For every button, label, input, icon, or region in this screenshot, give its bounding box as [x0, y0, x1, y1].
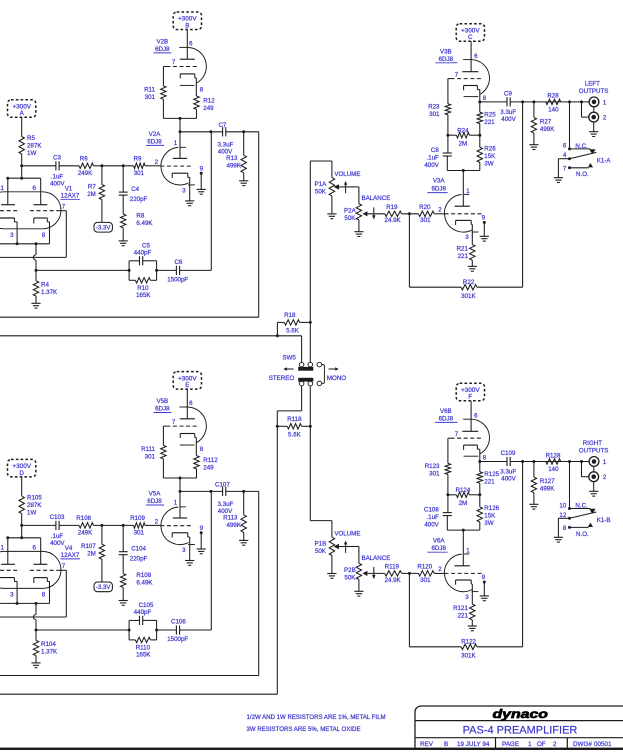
svg-text:R24: R24 [457, 127, 469, 134]
bias label -3.3V [94, 582, 112, 592]
svg-text:3W RESISTORS ARE 5%, METAL OXI: 3W RESISTORS ARE 5%, METAL OXIDE [247, 726, 361, 733]
svg-text:249K: 249K [78, 170, 93, 177]
svg-text:P2A: P2A [344, 207, 357, 214]
svg-text:499K: 499K [540, 126, 555, 133]
svg-text:V6B: V6B [440, 408, 452, 415]
label MONO with arrow [327, 367, 346, 382]
power +300V A [8, 100, 36, 137]
resistor R25 221 [477, 100, 496, 135]
ground under jack 2 [589, 122, 598, 137]
svg-text:C106: C106 [171, 619, 186, 626]
note resistor tolerances [247, 714, 386, 733]
relay K1-B N.C. contact pin 10 [559, 502, 595, 514]
svg-text:301: 301 [145, 94, 156, 101]
tube V3A grid pin 2 [438, 207, 482, 214]
capacitor C108 .1uF 400V [424, 495, 452, 530]
svg-text:301: 301 [134, 530, 145, 537]
resistor R22 301K feedback [409, 102, 522, 300]
svg-text:1500pF: 1500pF [167, 636, 188, 643]
svg-text:301: 301 [420, 577, 431, 584]
tube V5A plate pin 1 [173, 491, 188, 518]
label LEFT OUTPUTS [579, 80, 609, 94]
tube V5B grid pin 7 [163, 419, 197, 446]
svg-text:1: 1 [466, 188, 470, 195]
resistor R104 1.37K [33, 630, 58, 663]
svg-text:R109: R109 [130, 515, 145, 522]
svg-text:287K: 287K [27, 142, 42, 149]
svg-text:C8: C8 [431, 147, 439, 154]
svg-text:dynaco: dynaco [493, 707, 549, 721]
tube V3B envelope [463, 60, 489, 97]
resistor R19 24.9K [385, 204, 402, 224]
svg-text:2: 2 [553, 741, 557, 748]
tube V2B plate pin 6 [180, 40, 195, 59]
tube V5A grid pin 2 [155, 519, 193, 526]
svg-text:R20: R20 [419, 204, 431, 211]
svg-text:24.9K: 24.9K [385, 217, 402, 224]
sheet bottom border [0, 748, 623, 750]
svg-text:BALANCE: BALANCE [361, 195, 390, 202]
svg-text:DWG#: DWG# [573, 741, 592, 748]
tube V3B cathode pin 8 [464, 86, 487, 102]
svg-text:1.37K: 1.37K [41, 649, 58, 656]
relay K1-A N.C. contact pin 6 [563, 143, 596, 155]
svg-text:E: E [185, 382, 189, 389]
svg-text:00501: 00501 [594, 741, 612, 748]
svg-text:7: 7 [455, 431, 459, 438]
svg-text:R12: R12 [203, 97, 215, 104]
svg-text:V1: V1 [65, 185, 73, 192]
svg-text:7: 7 [62, 204, 66, 211]
tube V6B 6DJ8 label [435, 408, 457, 423]
ground at relay K1-B armature [554, 537, 563, 542]
svg-text:C4: C4 [131, 186, 139, 193]
svg-text:140: 140 [548, 106, 559, 113]
svg-text:3.3uF: 3.3uF [217, 141, 233, 148]
svg-text:B: B [185, 22, 189, 29]
resistor R119 24.9K [385, 564, 402, 584]
svg-text:R128: R128 [546, 452, 561, 459]
switch SW5 pole 2 [298, 378, 313, 386]
svg-text:6DJ8: 6DJ8 [155, 406, 170, 413]
node grid junction [402, 212, 419, 215]
svg-text:B: B [444, 741, 448, 748]
output jack 2 [582, 462, 607, 482]
svg-text:2: 2 [438, 207, 442, 214]
ground under P1A [327, 214, 336, 219]
svg-text:6: 6 [32, 544, 36, 551]
tube V4 grid pin 7 wire [65, 570, 67, 617]
svg-text:OUTPUTS: OUTPUTS [579, 447, 609, 454]
ground at relay K1-A armature [554, 178, 563, 183]
wire jack 1 to jack 2 shell [593, 466, 595, 472]
svg-text:165K: 165K [136, 652, 151, 659]
svg-text:1/2W AND 1W RESISTORS ARE 1%,: 1/2W AND 1W RESISTORS ARE 1%, METAL FILM [247, 714, 386, 721]
tube V2A plate pin 1 [173, 132, 188, 159]
svg-text:C104: C104 [131, 546, 146, 553]
tube V3A 6DJ8 label [427, 178, 447, 193]
svg-text:V5B: V5B [156, 398, 168, 405]
tube V5B 6DJ8 label [154, 398, 172, 413]
power +300V B [173, 12, 201, 59]
svg-text:400V: 400V [424, 521, 439, 528]
svg-text:PAGE: PAGE [502, 741, 519, 748]
wire output line [480, 460, 589, 463]
potentiometer P1B 50K VOLUME [315, 531, 361, 574]
tube V5B envelope [179, 407, 206, 445]
resistor R118 5.6K [276, 416, 312, 438]
resistor R108 6.49K [121, 572, 154, 601]
svg-text:N.O.: N.O. [576, 171, 589, 178]
ground under P1B [327, 574, 336, 579]
output jack 1 [589, 457, 607, 467]
resistor R4 1.37K [33, 270, 58, 303]
tube V1 plate feed wire [6, 166, 40, 180]
svg-text:C3: C3 [53, 154, 61, 161]
ground under R27 [529, 145, 538, 150]
svg-text:R11: R11 [144, 87, 155, 94]
svg-text:R4: R4 [41, 281, 49, 288]
svg-text:P1A: P1A [315, 181, 328, 188]
ground under R113 [239, 540, 248, 545]
label relay K1-B [597, 517, 611, 524]
label SW5 [282, 355, 296, 362]
svg-text:12AX7: 12AX7 [61, 552, 80, 559]
svg-text:1.37K: 1.37K [41, 289, 58, 296]
svg-text:1500pF: 1500pF [167, 276, 188, 283]
svg-text:3W: 3W [484, 520, 493, 527]
svg-text:301K: 301K [461, 653, 476, 660]
wire right channel selector input line [0, 426, 277, 694]
svg-text:R9: R9 [134, 155, 142, 162]
resistor R7 2M [87, 166, 104, 223]
capacitor C106 1500pF [157, 619, 212, 643]
capacitor C104 220pF [119, 525, 148, 573]
svg-text:6: 6 [189, 40, 193, 47]
svg-text:V2B: V2B [156, 39, 168, 46]
svg-text:2M: 2M [459, 500, 468, 507]
resistor R107 2M [81, 525, 105, 582]
svg-text:9: 9 [482, 574, 486, 581]
svg-text:2M: 2M [87, 191, 96, 198]
resistor R106 249K [76, 515, 93, 537]
svg-text:6DJ8: 6DJ8 [431, 545, 446, 552]
tube V2B envelope [179, 47, 206, 85]
tube V5A pin 9 shield to ground [197, 525, 206, 554]
svg-text:6DJ8: 6DJ8 [439, 416, 454, 423]
svg-text:221: 221 [458, 253, 469, 260]
svg-text:.1uF: .1uF [426, 514, 439, 521]
wire SW5 right pole to P1A feed [309, 161, 311, 362]
svg-text:V5A: V5A [149, 491, 162, 498]
svg-text:C107: C107 [215, 482, 230, 489]
relay K1-A armature pin 4 [558, 152, 596, 178]
svg-text:R26: R26 [484, 146, 496, 153]
tube V2B grid pin 7 [163, 59, 197, 86]
svg-text:50K: 50K [344, 575, 356, 582]
svg-text:R23: R23 [428, 103, 440, 110]
svg-text:R27: R27 [540, 118, 552, 125]
capacitor C3 .1uF 400V [50, 154, 65, 187]
svg-text:C109: C109 [501, 450, 516, 457]
svg-text:3.3uF: 3.3uF [217, 501, 233, 508]
svg-text:R120: R120 [417, 564, 432, 571]
svg-text:6.49K: 6.49K [136, 220, 153, 227]
svg-text:50K: 50K [344, 215, 356, 222]
svg-text:1: 1 [174, 500, 178, 507]
svg-text:C103: C103 [50, 514, 65, 521]
svg-text:3: 3 [10, 591, 14, 598]
wire V6A plate junction [447, 529, 480, 566]
resistor R26 15K 3W [477, 135, 496, 170]
resistor R113 499K [223, 491, 246, 540]
svg-text:6DJ8: 6DJ8 [147, 498, 162, 505]
svg-text:301K: 301K [461, 293, 476, 300]
label STEREO with arrow [269, 367, 295, 382]
ground under P2B [354, 591, 363, 596]
wire feed to P1A [310, 161, 332, 178]
svg-text:6.49K: 6.49K [136, 580, 153, 587]
svg-text:C9: C9 [504, 91, 512, 98]
tube V5B cathode pin 8 [180, 434, 204, 456]
svg-text:5.6K: 5.6K [286, 327, 300, 334]
svg-text:400V: 400V [50, 180, 65, 187]
resistor R24 2M [446, 127, 481, 147]
svg-text:6: 6 [563, 143, 567, 150]
capacitor C7 3.3uF 400V [217, 122, 233, 156]
svg-text:1: 1 [466, 547, 470, 554]
capacitor C4 220pF [119, 166, 148, 214]
capacitor C103 .1uF 400V [50, 514, 66, 547]
svg-text:R118: R118 [287, 416, 302, 423]
svg-text:1: 1 [0, 185, 4, 192]
svg-text:F: F [468, 394, 472, 401]
svg-text:BALANCE: BALANCE [361, 555, 390, 562]
capacitor C9 3.3uF 400V [500, 91, 516, 123]
wire C6 up to stage-2 output [210, 491, 212, 630]
svg-text:R13: R13 [226, 155, 238, 162]
svg-text:D: D [19, 470, 24, 477]
svg-text:R123: R123 [425, 463, 440, 470]
capacitor C107 3.3uF 400V [215, 482, 234, 516]
svg-text:2: 2 [438, 566, 442, 573]
switch SW5 pole 1 [298, 362, 313, 370]
svg-text:1: 1 [174, 140, 178, 147]
tube V2A envelope [161, 147, 195, 185]
tube V5A envelope [161, 507, 195, 545]
svg-text:8: 8 [42, 232, 46, 239]
svg-text:3: 3 [465, 594, 469, 601]
wire main input line [22, 524, 161, 526]
svg-text:C108: C108 [424, 506, 439, 513]
svg-text:301: 301 [429, 111, 440, 118]
svg-text:R7: R7 [88, 183, 96, 190]
wire to C5/R10 network [36, 629, 129, 631]
power +300V E [173, 372, 201, 419]
power +300V D [8, 459, 36, 496]
capacitor C8 .1uF 400V [424, 135, 451, 170]
svg-text:301: 301 [134, 170, 145, 177]
svg-text:3W: 3W [484, 161, 493, 168]
svg-text:3: 3 [10, 232, 14, 239]
resistor R5 287K 1W [19, 135, 42, 166]
tube V1 12AX7 envelope [0, 185, 80, 228]
wire to C5/R10 network [36, 269, 129, 271]
wire feed to P1B [310, 521, 332, 538]
svg-text:12AX7: 12AX7 [61, 193, 80, 200]
svg-text:SW5: SW5 [282, 355, 296, 362]
svg-text:6DJ8: 6DJ8 [147, 139, 162, 146]
svg-text:1W: 1W [27, 150, 36, 157]
resistor R13 499K [226, 132, 246, 181]
tube V6B envelope [463, 419, 489, 456]
svg-text:1: 1 [603, 459, 607, 466]
wire P1B wiper to P2B [346, 547, 359, 564]
svg-text:6DJ8: 6DJ8 [439, 56, 454, 63]
tube V1 plates pins 1 and 6 [0, 178, 47, 205]
svg-text:-3.3V: -3.3V [96, 226, 110, 232]
resistor R121 221 [453, 604, 475, 626]
wire SW5 lower-left jog [277, 386, 301, 427]
switch SW5 actuator bracket [317, 362, 324, 385]
potentiometer P1A 50K VOLUME [315, 171, 361, 214]
resistor R18 5.6K [277, 312, 311, 336]
label RIGHT OUTPUTS [579, 440, 609, 454]
svg-text:10: 10 [559, 502, 566, 509]
svg-text:249: 249 [203, 105, 214, 112]
svg-text:499K: 499K [227, 522, 242, 529]
tube V5A cathode pin 3 [172, 533, 190, 561]
svg-text:P2B: P2B [344, 567, 356, 574]
svg-text:2: 2 [603, 115, 607, 122]
svg-text:301: 301 [429, 470, 440, 477]
wire right channel output bus (C107 node to front panel) [0, 491, 259, 675]
capacitor C5 440pF / resistor R10 165K parallel [128, 243, 159, 300]
label relay K1-A [597, 157, 612, 164]
ground under R121 [468, 626, 477, 631]
wire main input line [22, 165, 161, 167]
svg-text:6: 6 [189, 400, 193, 407]
ground under R8 [119, 241, 128, 246]
resistor R21 221 [457, 245, 475, 267]
resistor R23 301 [428, 103, 450, 135]
svg-text:R127: R127 [540, 478, 555, 485]
wire cathode junction [0, 242, 50, 245]
resistor R127 499K [531, 462, 555, 505]
wire cathode junction [0, 602, 50, 605]
svg-text:V6A: V6A [433, 537, 446, 544]
svg-text:C: C [468, 34, 473, 41]
svg-text:400V: 400V [424, 162, 439, 169]
svg-text:220pF: 220pF [130, 196, 148, 203]
tube V6B grid pin 7 [448, 431, 481, 463]
svg-text:499K: 499K [540, 486, 555, 493]
tube V6A cathode pin 3 [456, 580, 473, 604]
resistor R123 301 [425, 463, 451, 495]
svg-text:2: 2 [603, 474, 607, 481]
svg-text:50K: 50K [315, 189, 327, 196]
wire left channel selector input line [0, 334, 302, 362]
tube V5B plate pin 6 [180, 400, 195, 419]
tube V3B plate pin 6 [462, 53, 478, 72]
node junctions on input line [20, 164, 125, 167]
resistor R12 249 [194, 96, 215, 118]
svg-text:8: 8 [200, 86, 204, 93]
svg-text:C6: C6 [174, 259, 182, 266]
title PAS-4 PREAMPLIFIER [463, 725, 578, 737]
svg-text:7: 7 [172, 419, 176, 426]
resistor R109 301 [130, 515, 145, 537]
capacitor C6 1500pF [157, 259, 212, 283]
svg-text:PAS-4 PREAMPLIFIER: PAS-4 PREAMPLIFIER [463, 725, 578, 737]
svg-text:221: 221 [484, 479, 495, 486]
tube V4 12AX7 envelope [0, 545, 80, 588]
tube V2B 6DJ8 label [154, 39, 172, 54]
potentiometer P2A 50K BALANCE [344, 195, 390, 232]
svg-text:OUTPUTS: OUTPUTS [579, 88, 609, 95]
svg-text:R111: R111 [141, 446, 155, 453]
resistor R124 2M [446, 487, 481, 507]
ground under P2A [354, 232, 363, 237]
svg-text:R21: R21 [457, 245, 469, 252]
svg-text:249K: 249K [78, 530, 93, 537]
svg-text:440pF: 440pF [134, 609, 152, 616]
tube V3A cathode pin 3 [456, 220, 473, 244]
svg-text:2: 2 [155, 159, 159, 166]
wire C6 up to stage-2 output [210, 132, 212, 271]
svg-text:R25: R25 [484, 111, 496, 118]
resistor R120 301 [417, 564, 444, 584]
resistor R28 140 [546, 93, 561, 114]
ground under R127 [529, 504, 538, 509]
svg-text:287K: 287K [27, 502, 42, 509]
svg-text:9: 9 [482, 215, 486, 222]
svg-text:400V: 400V [50, 540, 65, 547]
svg-text:15K: 15K [484, 153, 496, 160]
svg-text:.1uF: .1uF [426, 154, 439, 161]
wire cathode to output node (hop over feedback line) [33, 244, 37, 272]
svg-text:6: 6 [32, 185, 36, 192]
wire stage output line [179, 490, 259, 493]
svg-text:8: 8 [42, 591, 46, 598]
wire left channel output bus (C7 node to front panel) [0, 132, 259, 317]
svg-text:R10: R10 [137, 285, 149, 292]
svg-text:499K: 499K [227, 163, 242, 170]
svg-text:C5: C5 [142, 243, 150, 250]
svg-text:15K: 15K [484, 513, 496, 520]
svg-text:V2A: V2A [149, 131, 162, 138]
tube V3B grid pin 7 [448, 71, 481, 103]
svg-text:8: 8 [563, 525, 567, 532]
tube V4 plates pins 1 and 6 [0, 538, 47, 565]
svg-text:R8: R8 [136, 212, 144, 219]
svg-text:7: 7 [563, 166, 567, 173]
svg-text:12: 12 [559, 512, 566, 519]
svg-text:R22: R22 [463, 279, 475, 286]
wire jack 1 to jack 2 shell [593, 107, 595, 113]
wire V3A plate junction [447, 169, 480, 206]
svg-text:C105: C105 [139, 602, 154, 609]
ground under R4 [31, 303, 40, 308]
wire feedback line from tone network [0, 616, 66, 618]
svg-text:R122: R122 [461, 639, 476, 646]
ground under R21 [468, 266, 477, 271]
resistor R112 249 [194, 456, 218, 478]
svg-text:R124: R124 [456, 487, 471, 494]
svg-text:N.O.: N.O. [576, 531, 589, 538]
title block revision row [420, 741, 612, 748]
svg-text:R125: R125 [484, 471, 499, 478]
